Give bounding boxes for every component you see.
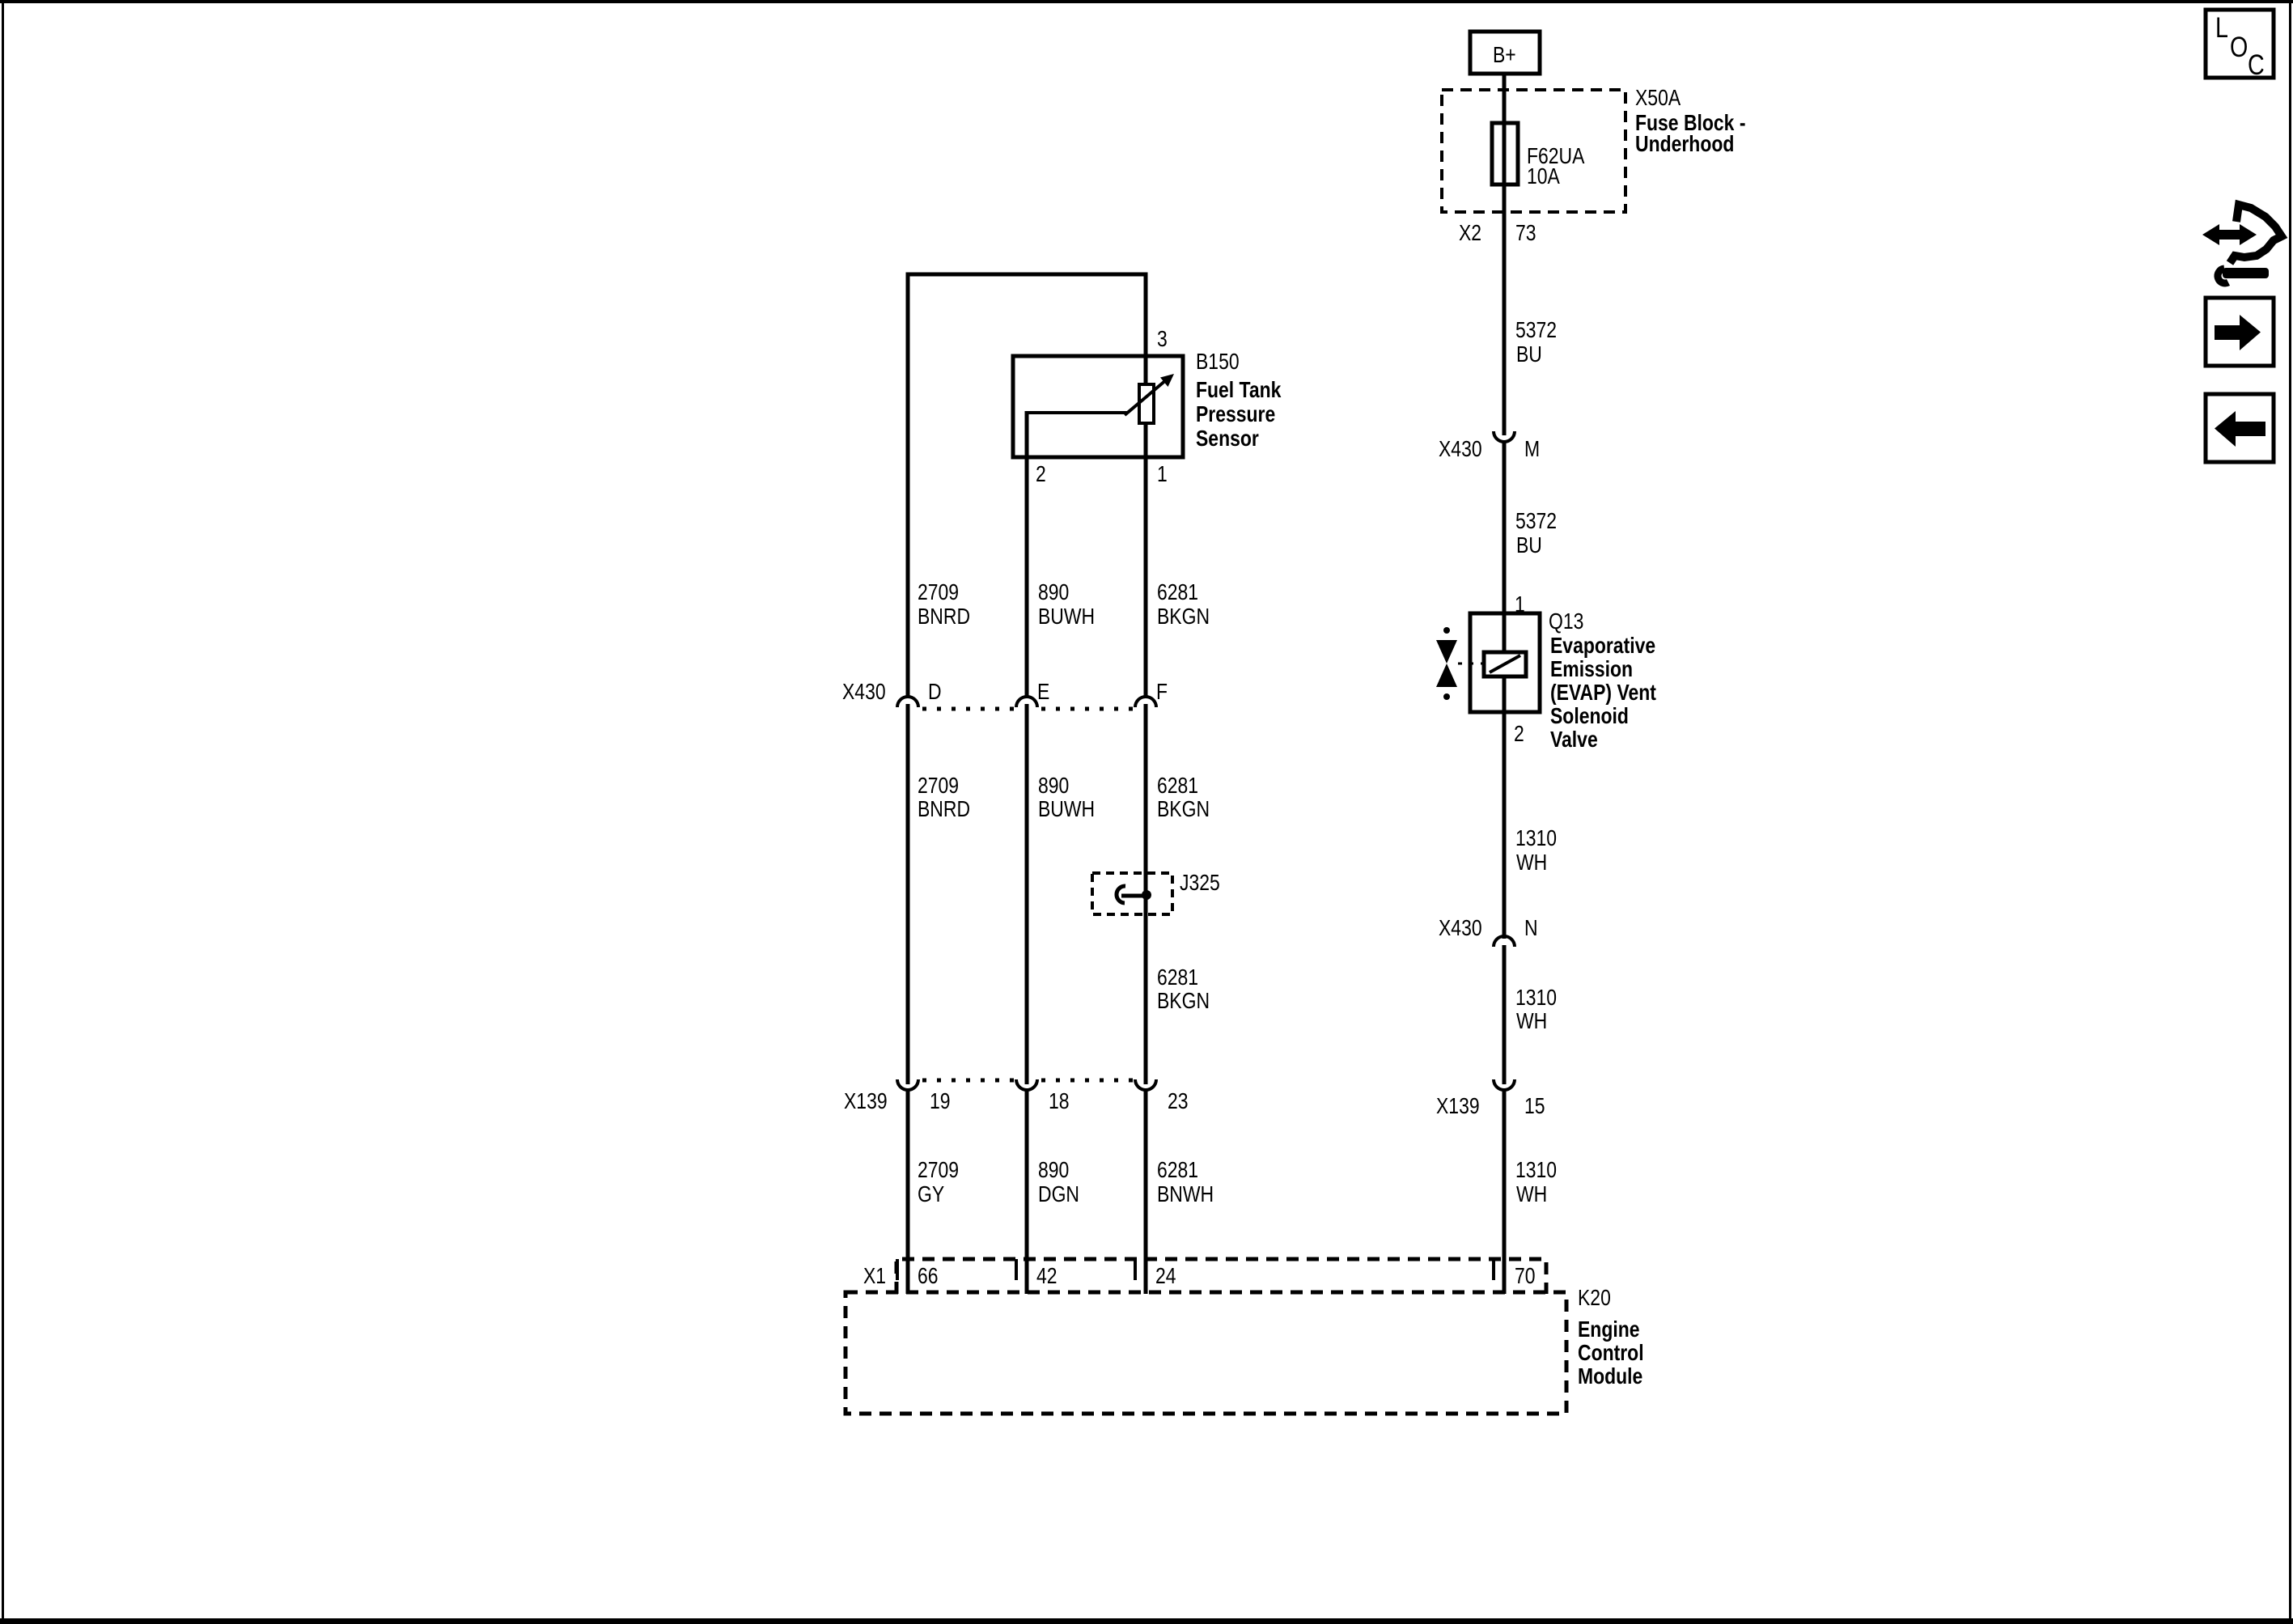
svg-text:Module: Module — [1578, 1364, 1642, 1389]
svg-text:J325: J325 — [1180, 871, 1220, 896]
svg-text:3: 3 — [1157, 327, 1168, 352]
svg-text:2709: 2709 — [918, 580, 959, 605]
svg-text:2709: 2709 — [918, 1158, 959, 1183]
svg-text:6281: 6281 — [1157, 965, 1198, 990]
svg-text:Q13: Q13 — [1549, 609, 1583, 634]
svg-text:L: L — [2215, 11, 2228, 43]
svg-text:X139: X139 — [1436, 1094, 1480, 1119]
svg-text:Sensor: Sensor — [1196, 426, 1259, 452]
svg-text:2: 2 — [1036, 462, 1046, 487]
svg-text:Fuel Tank: Fuel Tank — [1196, 378, 1282, 403]
svg-text:Underhood: Underhood — [1635, 132, 1734, 157]
svg-text:BUWH: BUWH — [1038, 797, 1095, 822]
svg-text:DGN: DGN — [1038, 1182, 1079, 1207]
svg-text:18: 18 — [1049, 1089, 1070, 1114]
svg-text:42: 42 — [1036, 1264, 1057, 1289]
svg-text:F: F — [1156, 680, 1168, 705]
svg-text:BUWH: BUWH — [1038, 604, 1095, 630]
svg-text:70: 70 — [1515, 1264, 1536, 1289]
svg-text:23: 23 — [1168, 1089, 1189, 1114]
svg-text:6281: 6281 — [1157, 774, 1198, 799]
svg-text:BKGN: BKGN — [1157, 797, 1210, 822]
svg-text:C: C — [2248, 49, 2265, 80]
svg-text:GY: GY — [918, 1182, 944, 1207]
svg-text:Control: Control — [1578, 1341, 1644, 1366]
svg-text:X50A: X50A — [1635, 86, 1681, 111]
svg-text:X139: X139 — [844, 1089, 888, 1114]
svg-text:Evaporative: Evaporative — [1550, 634, 1655, 659]
svg-text:BNRD: BNRD — [918, 604, 970, 630]
svg-text:Pressure: Pressure — [1196, 402, 1275, 427]
svg-text:O: O — [2230, 31, 2248, 62]
svg-text:BU: BU — [1516, 533, 1542, 558]
svg-text:73: 73 — [1515, 221, 1536, 246]
svg-text:15: 15 — [1524, 1094, 1545, 1119]
svg-text:B150: B150 — [1196, 350, 1240, 375]
svg-text:2: 2 — [1514, 722, 1524, 747]
svg-text:B+: B+ — [1493, 43, 1516, 68]
svg-text:Emission: Emission — [1550, 657, 1633, 682]
svg-text:E: E — [1037, 680, 1049, 705]
svg-text:WH: WH — [1516, 850, 1547, 876]
svg-text:X1: X1 — [863, 1264, 886, 1289]
svg-text:2709: 2709 — [918, 774, 959, 799]
svg-text:5372: 5372 — [1515, 318, 1557, 343]
svg-text:890: 890 — [1038, 774, 1069, 799]
svg-text:X430: X430 — [842, 680, 886, 705]
svg-text:5372: 5372 — [1515, 509, 1557, 534]
svg-text:1: 1 — [1157, 462, 1168, 487]
svg-text:BKGN: BKGN — [1157, 989, 1210, 1014]
svg-text:890: 890 — [1038, 1158, 1069, 1183]
svg-text:K20: K20 — [1578, 1286, 1611, 1311]
svg-text:(EVAP) Vent: (EVAP) Vent — [1550, 681, 1656, 706]
svg-text:19: 19 — [930, 1089, 951, 1114]
svg-text:M: M — [1524, 437, 1540, 462]
svg-text:BKGN: BKGN — [1157, 604, 1210, 630]
svg-text:1310: 1310 — [1515, 1158, 1557, 1183]
svg-text:66: 66 — [918, 1264, 939, 1289]
svg-text:1310: 1310 — [1515, 826, 1557, 851]
svg-text:X2: X2 — [1459, 221, 1481, 246]
svg-text:BU: BU — [1516, 342, 1542, 367]
svg-text:1310: 1310 — [1515, 986, 1557, 1011]
svg-text:BNRD: BNRD — [918, 797, 970, 822]
svg-text:D: D — [928, 680, 942, 705]
svg-text:6281: 6281 — [1157, 580, 1198, 605]
svg-text:X430: X430 — [1439, 916, 1482, 941]
svg-text:X430: X430 — [1439, 437, 1482, 462]
svg-text:N: N — [1524, 916, 1538, 941]
svg-text:BNWH: BNWH — [1157, 1182, 1214, 1207]
svg-text:Engine: Engine — [1578, 1317, 1640, 1342]
svg-text:Valve: Valve — [1550, 727, 1598, 753]
svg-text:WH: WH — [1516, 1009, 1547, 1034]
svg-text:6281: 6281 — [1157, 1158, 1198, 1183]
svg-text:890: 890 — [1038, 580, 1069, 605]
svg-text:24: 24 — [1155, 1264, 1176, 1289]
svg-text:WH: WH — [1516, 1182, 1547, 1207]
svg-text:10A: 10A — [1527, 164, 1561, 189]
svg-text:Solenoid: Solenoid — [1550, 704, 1629, 729]
